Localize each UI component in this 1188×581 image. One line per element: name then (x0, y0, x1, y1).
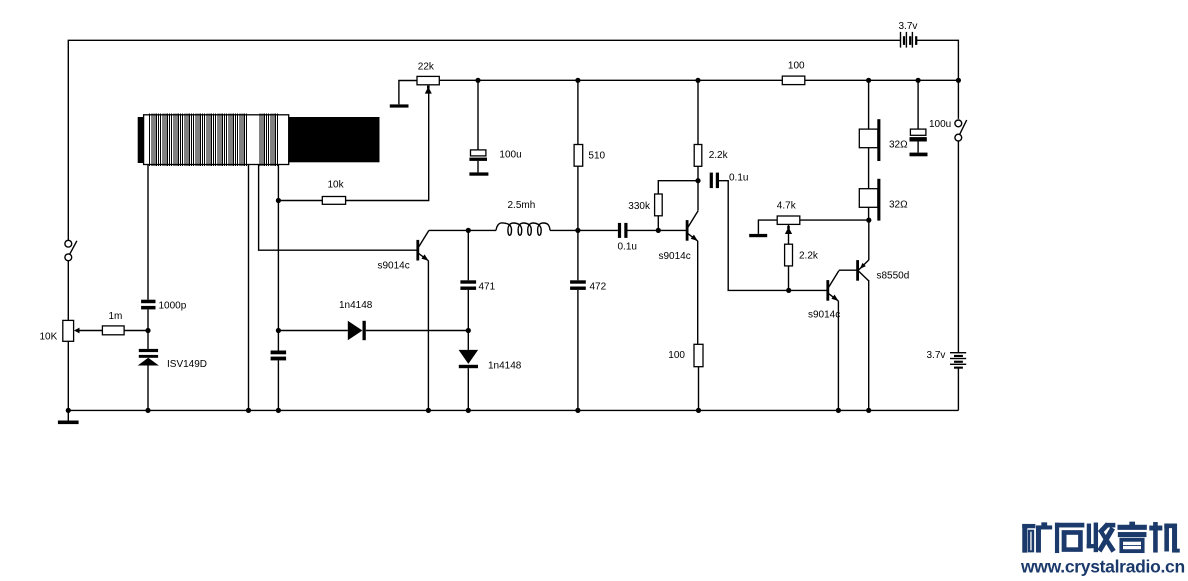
svg-text:100u: 100u (929, 119, 951, 130)
wire right column battery B2 to bus (957, 369, 959, 411)
inductor L2 2.5mh (496, 223, 550, 235)
wire 1m to varactor column (124, 330, 148, 332)
wire 100u right column (917, 80, 919, 129)
wire 2.2k to junction (697, 166, 699, 180)
ground bottom left (58, 410, 79, 424)
wire C6 right down to Q3 base row (719, 181, 789, 291)
wire second rail from 100 resistor to right column (805, 79, 959, 81)
wire 1000p to junction (147, 309, 149, 349)
ferrite antenna coil L1 (138, 113, 380, 165)
svg-text:1000p: 1000p (159, 300, 187, 311)
wire Q1 emitter to bus (427, 261, 429, 411)
switch S2 right (955, 120, 967, 141)
resistor R1 1m (102, 326, 124, 335)
svg-text:100u: 100u (499, 150, 521, 161)
node collector row 471 (466, 228, 471, 233)
node rail2-100u right (916, 78, 921, 83)
node varactor junction (145, 328, 150, 333)
svg-text:2.5mh: 2.5mh (508, 200, 536, 211)
wire left column pot to bus (67, 341, 69, 410)
node 2.2k base row junction (786, 288, 791, 293)
node bus Q4 collector (866, 408, 871, 413)
logo crystalradio (1023, 522, 1180, 553)
svg-text:510: 510 (588, 150, 605, 161)
svg-text:s9014c: s9014c (659, 251, 691, 262)
wire coil tap C down and right to Q1 base (259, 165, 418, 251)
node rail2-2.2k (695, 78, 700, 83)
wire 510 to collector row (577, 166, 579, 280)
capacitor C1 1000p (141, 300, 155, 310)
wire top rail left of battery B1 (68, 40, 900, 240)
svg-text:3.7v: 3.7v (899, 21, 918, 32)
svg-text:330k: 330k (628, 201, 651, 212)
svg-text:2.2k: 2.2k (709, 150, 729, 161)
ground near 4.7k (749, 220, 777, 237)
svg-text:1m: 1m (109, 311, 123, 322)
wire coil to 510 column (550, 229, 618, 231)
svg-text:2.2k: 2.2k (799, 251, 819, 262)
diode D1 1n4148 horizontal (278, 321, 468, 340)
wire 330k row (658, 181, 698, 231)
node bus Q3 emitter (836, 408, 841, 413)
svg-text:ISV149D: ISV149D (167, 359, 207, 370)
svg-text:100: 100 (668, 350, 685, 361)
resistor R3 510 (574, 145, 583, 167)
node diode row tap D (276, 328, 281, 333)
wire Q3 collector to Q4 base (839, 269, 858, 271)
wire 471 to diode row (467, 290, 469, 331)
svg-text:s9014c: s9014c (378, 260, 410, 271)
node bus 472 (575, 408, 580, 413)
resistor R8 100 top (782, 76, 805, 85)
svg-text:10K: 10K (40, 331, 58, 342)
wire 10k to 22k wiper column (346, 88, 429, 201)
resistor R2 10k (322, 197, 345, 205)
wire 10k row from tap D (278, 200, 322, 202)
node collector row 510 (575, 228, 580, 233)
capacitor C6 0.1u second (710, 173, 719, 189)
potentiometer RP3 4.7k (777, 216, 800, 234)
node bus R6 (696, 408, 701, 413)
svg-text:472: 472 (590, 282, 607, 293)
svg-text:32Ω: 32Ω (889, 199, 908, 210)
node bus Q1 emitter (426, 408, 431, 413)
resistor R4 330k (655, 194, 663, 216)
svg-text:32Ω: 32Ω (889, 140, 908, 151)
svg-text:22k: 22k (418, 62, 435, 73)
capacitor C2 471 (460, 280, 476, 290)
capacitor C5 0.1u coupling (618, 223, 628, 238)
battery B1 3.7v horizontal (900, 32, 918, 48)
node diode row 471 (466, 328, 471, 333)
wire second rail from 22k to 100 resistor (439, 79, 782, 81)
node bus tap D (276, 408, 281, 413)
wire between speakers (868, 148, 870, 189)
wire tap D cap to bus (277, 360, 279, 410)
svg-text:s9014c: s9014c (808, 310, 840, 321)
wire 4.7k wiper to 2.2k (788, 224, 790, 244)
potentiometer RP1 10K (63, 320, 80, 341)
svg-text:471: 471 (479, 282, 496, 293)
capacitor C3 100u electrolytic (469, 150, 488, 176)
switch S1 left (65, 240, 77, 260)
wire right column switch to battery B2 (957, 141, 959, 352)
transistor Q1 s9014c (418, 230, 429, 260)
svg-text:s8550d: s8550d (877, 270, 910, 281)
wire Q3 emitter to bus (837, 301, 839, 411)
wire R7 to base row junction (788, 266, 790, 291)
diode D2 1n4148 vertical (459, 331, 479, 411)
wire speaker column from rail (868, 80, 870, 129)
wire R6 to bus (698, 367, 700, 411)
varactor diode D3 ISV149D (138, 349, 159, 366)
node rail2-510 (575, 78, 580, 83)
node 10k tap D (276, 198, 281, 203)
node rail2-right column (956, 78, 961, 83)
wire 22k left terminal to ground (399, 81, 417, 105)
svg-text:0.1u: 0.1u (729, 172, 748, 183)
svg-text:1n4148: 1n4148 (488, 360, 522, 371)
svg-text:4.7k: 4.7k (777, 200, 797, 211)
wire 510 column from rail (577, 80, 579, 144)
wire 4.7k right terminal to speaker junction (800, 219, 869, 221)
svg-text:10k: 10k (328, 180, 345, 191)
wire speaker2 to junction (868, 207, 870, 220)
capacitor C4 472 (570, 280, 586, 290)
svg-text:1n4148: 1n4148 (339, 300, 373, 311)
wire coil tap D down to diode row (277, 165, 279, 351)
wire Q4 emitter up to speaker junction (868, 220, 870, 260)
wire Q1 collector row to coil (429, 229, 496, 231)
wire bottom bus (68, 409, 958, 411)
wire 2.2k column from rail (697, 80, 699, 144)
wire 100u mid column (477, 80, 479, 150)
wire 0.1u to Q2 base (628, 229, 688, 231)
node collector row 330k (656, 228, 661, 233)
transistor Q3 s9014c (828, 271, 839, 301)
wire coil tap A down to 1000p (147, 165, 149, 300)
wire left column switch to pot (67, 261, 69, 320)
potentiometer RP2 22k (417, 76, 439, 93)
transistor Q2 s9014c (687, 211, 698, 241)
node 4.7k speaker junction (866, 218, 871, 223)
wire Q2 emitter to 100 resistor (697, 241, 699, 345)
wire junction down to Q2 collector (697, 181, 699, 211)
wire coil tap B down to bus (248, 165, 250, 411)
capacitor C7 100u electrolytic right (910, 129, 928, 156)
node rail2-100u mid (475, 78, 480, 83)
resistor R5 2.2k (694, 145, 702, 167)
node bus varactor (145, 408, 150, 413)
svg-text:0.1u: 0.1u (618, 241, 637, 252)
wire Q4 collector to bus (868, 280, 870, 410)
node bus tap B (246, 408, 251, 413)
wire 472 to bus (577, 290, 579, 411)
wire Q3 base row right part (789, 289, 828, 291)
node 2.2k junction (695, 178, 700, 183)
svg-text:3.7v: 3.7v (927, 350, 946, 361)
speaker LS2 32ohm (859, 179, 880, 221)
transistor Q4 s8550d PNP (858, 260, 869, 281)
svg-text:100: 100 (788, 60, 805, 71)
resistor R7 2.2k (785, 244, 793, 266)
node rail2-speaker (866, 78, 871, 83)
wire varactor to bus (147, 366, 149, 411)
wire 10K wiper to 1m (79, 330, 102, 332)
resistor R6 100 (694, 344, 703, 366)
wire top rail right of battery B1 to right column (917, 40, 958, 119)
capacitor tap D (no label) (271, 351, 287, 361)
wire 471 column top (467, 230, 469, 280)
node bus diode (466, 408, 471, 413)
speaker LS1 32ohm (859, 119, 880, 161)
svg-text:www.crystalradio.cn: www.crystalradio.cn (1020, 557, 1185, 577)
node bus left column (66, 408, 71, 413)
battery B2 3.7v vertical (950, 352, 966, 369)
ground under 22k (390, 104, 409, 107)
